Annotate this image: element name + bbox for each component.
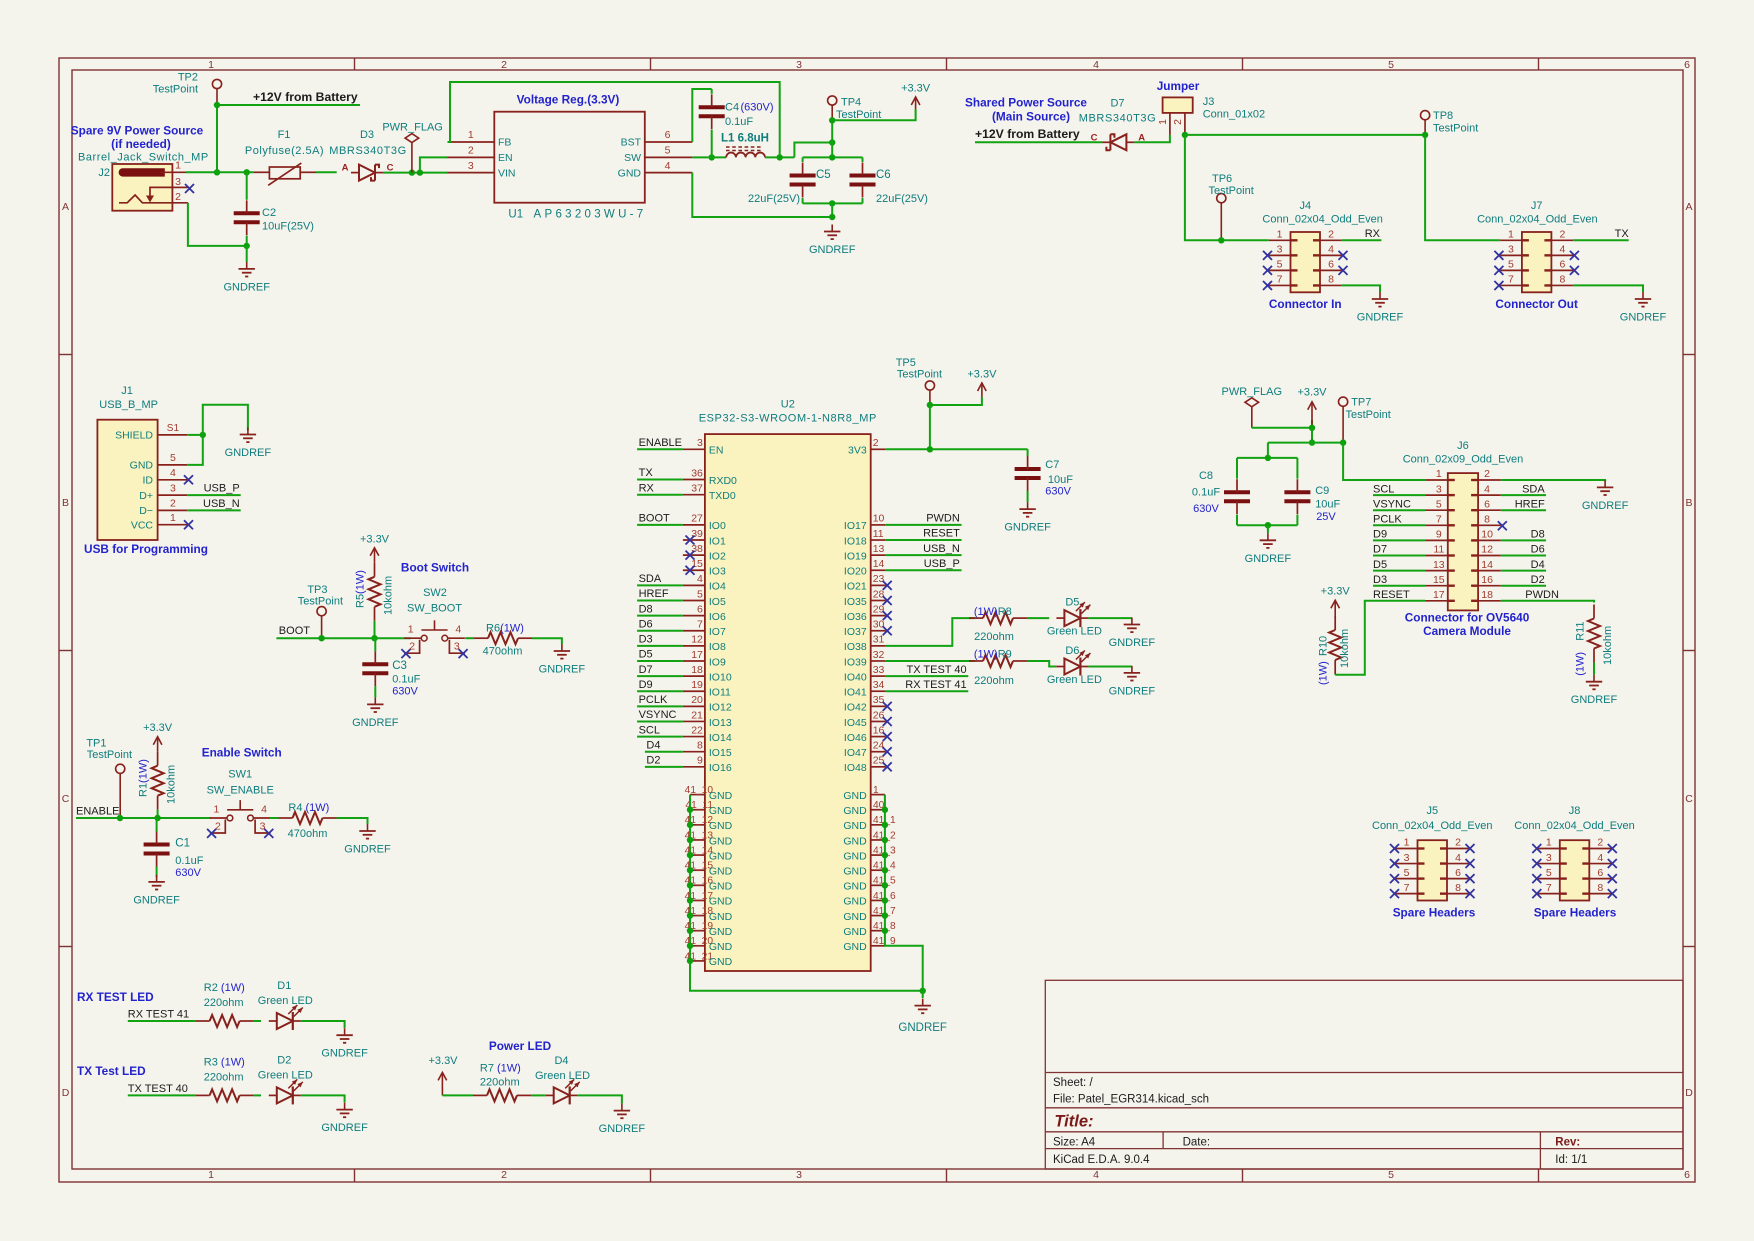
no-connect U2 left	[686, 551, 695, 560]
svg-text:J6: J6	[1457, 440, 1469, 452]
svg-text:6: 6	[697, 603, 703, 615]
svg-text:GNDREF: GNDREF	[133, 894, 180, 906]
svg-text:TestPoint: TestPoint	[298, 596, 343, 608]
wire	[1425, 135, 1500, 240]
U2 pin 41_13 GND	[685, 830, 733, 847]
junction	[882, 852, 888, 858]
svg-text:16: 16	[873, 724, 885, 736]
svg-text:33: 33	[873, 664, 885, 676]
svg-text:18: 18	[691, 664, 703, 676]
svg-text:7: 7	[1546, 882, 1552, 894]
label ENABLE	[639, 437, 682, 449]
junction	[117, 815, 123, 821]
svg-text:19: 19	[691, 679, 703, 691]
svg-text:TXD0: TXD0	[709, 490, 736, 502]
U2 pin 17 IO9	[683, 649, 726, 669]
wire	[1027, 661, 1056, 667]
label HREF	[639, 588, 669, 600]
svg-text:GNDREF: GNDREF	[1109, 685, 1156, 697]
svg-text:IO7: IO7	[709, 626, 726, 638]
wire	[1185, 135, 1269, 240]
U2 pin 41_1 GND	[843, 815, 896, 832]
svg-text:SCL: SCL	[1373, 483, 1394, 495]
resistor R3	[196, 1056, 254, 1101]
U2 pin 41_11 GND	[685, 800, 732, 817]
svg-text:4: 4	[1559, 244, 1565, 256]
svg-text:SW: SW	[624, 152, 641, 164]
svg-text:KiCad E.D.A. 9.0.4: KiCad E.D.A. 9.0.4	[1053, 1154, 1150, 1166]
no-connect J2 pin3	[185, 184, 194, 193]
junction	[1422, 132, 1428, 138]
svg-text:B: B	[62, 497, 69, 509]
U2 pin 41_5 GND	[843, 876, 896, 893]
U2 pin 37 TXD0	[683, 483, 736, 503]
U2 pin 28 IO35	[844, 588, 886, 608]
svg-text:2: 2	[501, 1169, 507, 1181]
J6 pin 17	[1425, 589, 1455, 602]
svg-text:Green LED: Green LED	[1047, 626, 1102, 638]
U2 pin 35 IO42	[844, 694, 886, 714]
svg-text:IO38: IO38	[844, 641, 867, 653]
switch SW2 labels	[407, 587, 462, 615]
svg-text:8: 8	[1328, 274, 1334, 286]
svg-text:2: 2	[1559, 229, 1565, 241]
capacitor C5	[748, 163, 831, 206]
label D2 at J6	[1531, 574, 1545, 586]
junction	[829, 139, 835, 145]
svg-text:2: 2	[1455, 837, 1461, 849]
svg-text:1: 1	[208, 1169, 214, 1181]
svg-text:35: 35	[873, 694, 885, 706]
label RX TEST 41	[905, 679, 966, 691]
svg-text:SW_ENABLE: SW_ENABLE	[207, 785, 274, 797]
wire	[637, 690, 683, 692]
J6 pin 2	[1471, 468, 1501, 481]
wire	[1268, 442, 1343, 444]
svg-text:IO5: IO5	[709, 596, 726, 608]
label PWDN	[926, 513, 960, 525]
svg-text:1: 1	[1508, 229, 1514, 241]
svg-text:25: 25	[873, 755, 885, 767]
svg-text:220ohm: 220ohm	[204, 1071, 244, 1083]
svg-text:Size: A4: Size: A4	[1053, 1137, 1096, 1149]
ground GNDREF at J6	[1582, 480, 1629, 512]
U2 pin 19 IO11	[683, 679, 731, 699]
svg-text:A: A	[1685, 201, 1692, 213]
svg-text:IO2: IO2	[709, 550, 726, 562]
svg-text:Voltage Reg.(3.3V): Voltage Reg.(3.3V)	[517, 93, 620, 107]
svg-text:GNDREF: GNDREF	[1004, 522, 1051, 534]
svg-text:C: C	[62, 793, 70, 805]
wire	[637, 448, 683, 450]
svg-text:5: 5	[1404, 867, 1410, 879]
svg-text:4: 4	[697, 573, 703, 585]
svg-text:14: 14	[873, 558, 885, 570]
junction	[1265, 455, 1271, 461]
svg-text:3: 3	[796, 1169, 802, 1181]
note Connector for OV5640	[1405, 611, 1530, 639]
svg-text:D4: D4	[1531, 559, 1545, 571]
label SDA	[639, 573, 662, 585]
ground GNDREF at D6	[1109, 666, 1156, 698]
U2 pin 1 GND	[843, 785, 885, 802]
svg-text:24: 24	[873, 740, 885, 752]
capacitor C3	[362, 651, 420, 697]
connector J5	[1418, 840, 1448, 900]
svg-text:IO46: IO46	[844, 732, 867, 744]
svg-text:RX TEST LED: RX TEST LED	[77, 990, 154, 1004]
svg-text:22uF(25V): 22uF(25V)	[876, 193, 928, 205]
svg-text:IO9: IO9	[709, 656, 726, 668]
junction	[687, 852, 693, 858]
J6 pin 5	[1425, 498, 1455, 511]
svg-text:GNDREF: GNDREF	[321, 1048, 368, 1060]
svg-text:IO3: IO3	[709, 566, 726, 578]
junction	[154, 815, 160, 821]
svg-text:GNDREF: GNDREF	[809, 244, 856, 256]
junction	[882, 867, 888, 873]
wire	[637, 705, 683, 707]
U2 pin 13 IO19	[844, 543, 886, 563]
svg-text:1: 1	[1436, 468, 1442, 480]
junction	[882, 882, 888, 888]
wire	[831, 120, 833, 142]
capacitor C8	[1192, 470, 1250, 515]
ground GNDREF at D4	[599, 1104, 646, 1136]
svg-text:IO1: IO1	[709, 535, 726, 547]
svg-text:SDA: SDA	[639, 573, 662, 585]
U2 pin 4 IO4	[683, 573, 726, 593]
label HREF at J6	[1515, 498, 1545, 510]
svg-text:220ohm: 220ohm	[204, 997, 244, 1009]
svg-text:IO42: IO42	[844, 702, 867, 714]
label TX TEST 40 wire	[128, 1083, 188, 1095]
label VSYNC at J6	[1373, 498, 1411, 510]
svg-text:PCLK: PCLK	[639, 694, 668, 706]
wire	[862, 198, 864, 203]
no-connect U2 right	[883, 717, 892, 726]
U2 pin 6 IO6	[683, 603, 726, 623]
note Shared Power Source	[965, 96, 1087, 124]
junction	[687, 897, 693, 903]
svg-text:6: 6	[1559, 259, 1565, 271]
label SCL	[639, 724, 660, 736]
label PCLK at J6	[1373, 514, 1402, 526]
svg-text:Connector In: Connector In	[1269, 297, 1342, 311]
U2 pin 41_14 GND	[685, 845, 733, 862]
svg-text:TX: TX	[639, 467, 654, 479]
no-connect U2 right	[883, 581, 892, 590]
svg-text:D+: D+	[139, 490, 153, 502]
svg-text:12: 12	[1481, 544, 1493, 556]
svg-text:RXD0: RXD0	[709, 475, 737, 487]
U2 pin 41_10 GND	[685, 785, 733, 802]
wire	[374, 686, 376, 697]
svg-text:TP2: TP2	[178, 72, 198, 84]
svg-text:+3.3V: +3.3V	[901, 83, 931, 95]
J6 pin 7	[1425, 514, 1455, 527]
U2 pin 41_16 GND	[685, 876, 733, 893]
wire	[156, 818, 158, 832]
svg-text:IO47: IO47	[844, 747, 867, 759]
svg-text:TP4: TP4	[841, 97, 861, 109]
svg-text:BOOT: BOOT	[279, 625, 310, 637]
J6 pin 18	[1471, 589, 1501, 602]
svg-text:27: 27	[691, 513, 703, 525]
svg-text:GND: GND	[843, 790, 867, 802]
U2 pin 41_19 GND	[685, 921, 733, 938]
svg-text:(Main Source): (Main Source)	[992, 110, 1070, 124]
svg-text:+3.3V: +3.3V	[1297, 387, 1327, 399]
label +12V from Battery	[253, 90, 358, 104]
svg-text:IO10: IO10	[709, 671, 732, 683]
J6 pin 11	[1425, 544, 1455, 557]
svg-text:J2: J2	[98, 167, 110, 179]
label RX	[1365, 228, 1381, 240]
svg-text:IO19: IO19	[844, 550, 867, 562]
wire	[1236, 458, 1238, 479]
wire	[276, 637, 410, 639]
svg-text:2: 2	[873, 437, 879, 449]
svg-text:+3.3V: +3.3V	[428, 1055, 458, 1067]
wire PWDN to R11	[1525, 589, 1559, 601]
ground GNDREF at R4	[344, 824, 391, 856]
svg-text:9: 9	[1436, 529, 1442, 541]
U2 pin 14 IO20	[844, 558, 886, 578]
svg-text:ID: ID	[143, 475, 154, 487]
svg-text:(1W): (1W)	[1318, 661, 1330, 685]
label D2	[646, 755, 660, 767]
svg-text:2: 2	[1597, 837, 1603, 849]
svg-text:R3 (1W): R3 (1W)	[204, 1056, 245, 1068]
ground GNDREF at D1	[321, 1028, 368, 1060]
svg-text:TP3: TP3	[307, 584, 327, 596]
svg-text:AP63203WU-7: AP63203WU-7	[534, 209, 647, 221]
wire	[374, 621, 376, 638]
led D6	[1047, 645, 1102, 686]
svg-text:TestPoint: TestPoint	[1209, 185, 1254, 197]
svg-text:RX: RX	[639, 482, 655, 494]
svg-text:5: 5	[665, 145, 671, 157]
svg-text:3: 3	[1404, 852, 1410, 864]
note Power LED	[489, 1039, 552, 1053]
svg-text:D2: D2	[1531, 574, 1545, 586]
U2 pin 7 IO7	[683, 619, 726, 639]
wire	[1373, 570, 1425, 572]
svg-text:IO17: IO17	[844, 520, 867, 532]
svg-text:Connector Out: Connector Out	[1495, 297, 1578, 311]
svg-text:11: 11	[1433, 544, 1444, 556]
svg-text:TX TEST 40: TX TEST 40	[906, 664, 966, 676]
svg-text:D7: D7	[1110, 98, 1124, 110]
wire	[930, 397, 982, 405]
svg-text:630V: 630V	[1193, 503, 1219, 515]
ground GNDREF at C5 C6	[809, 225, 856, 257]
wire	[692, 156, 726, 158]
wire	[1088, 666, 1132, 668]
svg-text:6: 6	[1684, 1169, 1690, 1181]
barrel jack J2	[78, 152, 209, 211]
label D7	[639, 664, 653, 676]
wire	[157, 810, 159, 818]
wire	[1237, 457, 1297, 459]
resistor R5	[355, 563, 395, 621]
svg-text:RX TEST 41: RX TEST 41	[128, 1009, 189, 1021]
wire	[1252, 420, 1312, 428]
wire	[803, 156, 863, 158]
power flag PWR_FLAG camera	[1222, 386, 1283, 428]
U2 pin 29 IO36	[844, 603, 886, 623]
wire	[637, 645, 683, 647]
svg-text:+3.3V: +3.3V	[1321, 586, 1351, 598]
svg-text:D3: D3	[360, 129, 374, 141]
usb connector J1	[97, 385, 158, 540]
svg-text:6: 6	[1684, 59, 1690, 71]
note RX TEST LED	[77, 990, 154, 1004]
U2 pin 2 3V3	[848, 437, 886, 457]
svg-text:5: 5	[1277, 259, 1283, 271]
svg-text:C8: C8	[1199, 470, 1213, 482]
label D7 at J6	[1373, 544, 1387, 556]
junction	[882, 912, 888, 918]
svg-text:PCLK: PCLK	[1373, 514, 1402, 526]
no-connect J6 pin8	[1498, 521, 1507, 530]
svg-text:13: 13	[873, 543, 885, 555]
svg-text:GNDREF: GNDREF	[1582, 500, 1629, 512]
svg-text:3: 3	[1546, 852, 1552, 864]
wire	[1088, 617, 1132, 619]
svg-text:GND: GND	[843, 850, 867, 862]
wire	[765, 156, 794, 158]
svg-text:Connector for OV5640: Connector for OV5640	[1405, 611, 1530, 625]
svg-text:2: 2	[409, 641, 415, 653]
junction	[709, 154, 715, 160]
wire	[711, 89, 713, 94]
U2 pin 32 IO39	[844, 649, 886, 669]
svg-text:GNDREF: GNDREF	[1245, 553, 1292, 565]
svg-text:17: 17	[691, 649, 703, 661]
wire	[862, 157, 864, 162]
svg-text:R7 (1W): R7 (1W)	[480, 1063, 521, 1075]
svg-text:10: 10	[1481, 529, 1493, 541]
svg-text:5: 5	[1508, 259, 1514, 271]
svg-text:10kohm: 10kohm	[1339, 629, 1351, 668]
J1 pin S1 SHIELD	[115, 423, 187, 442]
svg-text:File: Patel_EGR314.kicad_sch: File: Patel_EGR314.kicad_sch	[1053, 1094, 1209, 1106]
wire	[637, 600, 683, 602]
svg-text:GND: GND	[843, 866, 867, 878]
wire	[886, 539, 962, 541]
switch SW1	[210, 817, 227, 819]
J1 pin 2 D-	[139, 498, 187, 517]
wire	[1343, 443, 1425, 480]
junction	[214, 169, 220, 175]
junction	[409, 169, 415, 175]
svg-text:TX TEST 40: TX TEST 40	[128, 1083, 188, 1095]
wire	[246, 246, 248, 262]
svg-text:TP1: TP1	[86, 738, 106, 750]
svg-text:GNDREF: GNDREF	[1357, 312, 1404, 324]
svg-text:11: 11	[873, 528, 884, 540]
no-connect U2 left	[686, 566, 695, 575]
svg-text:1: 1	[208, 59, 214, 71]
svg-text:IO12: IO12	[709, 702, 732, 714]
resistor R8	[969, 606, 1027, 643]
capacitor C6	[850, 163, 928, 206]
svg-text:(if needed): (if needed)	[111, 137, 171, 151]
J6 pin 6	[1471, 498, 1501, 511]
label RX TEST 41 wire	[128, 1009, 189, 1021]
testpoint TP2	[153, 72, 222, 106]
wire	[1501, 480, 1605, 482]
wire	[187, 509, 241, 511]
J6 pin 1	[1425, 468, 1455, 481]
wire	[270, 817, 279, 819]
svg-text:IO8: IO8	[709, 641, 726, 653]
label USB_N	[923, 543, 960, 555]
svg-text:D5: D5	[639, 649, 653, 661]
svg-text:Power LED: Power LED	[489, 1039, 552, 1053]
wire	[886, 618, 975, 646]
no-connect U2 left	[686, 536, 695, 545]
jumper J3	[1157, 79, 1265, 135]
svg-text:D5: D5	[1373, 559, 1387, 571]
svg-text:BOOT: BOOT	[639, 513, 670, 525]
capacitor C7	[1015, 456, 1074, 498]
no-connect U2 right	[883, 747, 892, 756]
svg-text:SHIELD: SHIELD	[115, 430, 153, 442]
wire	[76, 817, 211, 819]
resistor R10	[1318, 616, 1352, 685]
junction	[687, 927, 693, 933]
wire	[246, 236, 248, 246]
wire	[1334, 673, 1336, 676]
U2 pin 10 IO17	[844, 513, 886, 533]
svg-text:D7: D7	[1373, 544, 1387, 556]
svg-text:Conn_02x04_Odd_Even: Conn_02x04_Odd_Even	[1477, 214, 1597, 226]
svg-text:5: 5	[170, 452, 176, 464]
U2 pin 30 IO37	[844, 619, 886, 639]
svg-text:C2: C2	[262, 207, 276, 219]
testpoint TP4	[828, 96, 882, 121]
note TX Test LED	[77, 1064, 146, 1078]
svg-text:IO37: IO37	[844, 626, 867, 638]
svg-text:GNDREF: GNDREF	[223, 281, 270, 293]
ground GNDREF at J1	[225, 428, 272, 460]
J6 pin 9	[1425, 529, 1455, 542]
power flag PWR_FLAG	[382, 122, 443, 173]
svg-text:EN: EN	[709, 445, 724, 457]
wire	[1573, 285, 1643, 292]
wire	[186, 171, 254, 173]
svg-text:8: 8	[1455, 882, 1461, 894]
svg-text:21: 21	[691, 709, 703, 721]
svg-text:3: 3	[454, 641, 460, 653]
svg-text:IO14: IO14	[709, 732, 732, 744]
wire	[1185, 134, 1425, 136]
capacitor C1	[144, 832, 204, 880]
wire	[1237, 524, 1297, 526]
svg-text:9: 9	[697, 755, 703, 767]
svg-text:28: 28	[873, 588, 885, 600]
wire	[637, 494, 683, 496]
wire	[128, 1094, 196, 1096]
svg-text:4: 4	[1484, 483, 1490, 495]
svg-text:SDA: SDA	[1522, 483, 1545, 495]
junction	[927, 402, 933, 408]
svg-text:L1 6.8uH: L1 6.8uH	[721, 133, 769, 145]
svg-text:C4: C4	[725, 102, 739, 114]
